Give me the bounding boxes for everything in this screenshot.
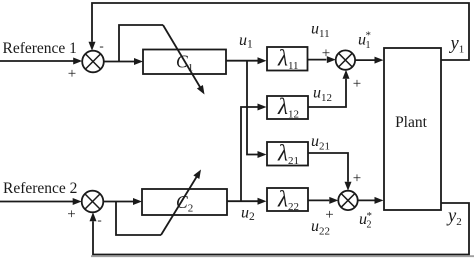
wire: C2 adaptation branch (down and over): [116, 202, 161, 236]
svg-text:Reference 1: Reference 1: [3, 40, 77, 57]
svg-text:+: +: [67, 207, 75, 223]
svg-text:Reference 2: Reference 2: [3, 180, 77, 197]
svg-text:C2: C2: [176, 192, 193, 215]
decoupler block L21: [267, 142, 308, 166]
svg-text:y2: y2: [446, 207, 462, 229]
wire: L11 output to summing junction S2: [308, 59, 327, 61]
wire: plant output y2 feedback to S3 (bottom path): [93, 203, 469, 255]
wire: plant output y1 feedback to S1 (top path): [92, 3, 469, 60]
adaptation diagonal arrow through C1: [163, 25, 200, 87]
svg-text:1: 1: [366, 40, 371, 51]
svg-text:y1: y1: [449, 34, 465, 56]
svg-text:+: +: [325, 207, 333, 223]
wire: L12 output up into S2: [308, 79, 346, 107]
wire: u1 branch down to L21: [247, 61, 258, 155]
wire: S4 output u2* to Plant: [358, 199, 375, 201]
wire: L21 output down into summing junction S4: [308, 153, 348, 182]
wire: C2 output u2 to block L22: [227, 200, 258, 202]
svg-text:-: -: [97, 212, 101, 227]
plant block: [384, 48, 441, 210]
wire: Reference 2 input into summing junction S3: [0, 201, 73, 203]
svg-text:λ21: λ21: [277, 141, 299, 168]
svg-text:+: +: [322, 46, 330, 62]
decoupler block L22: [267, 188, 308, 211]
wire: C1 adaptation branch (up and over): [119, 25, 163, 62]
adaptation diagonal arrow through C2: [161, 177, 197, 235]
svg-text:-: -: [99, 38, 103, 53]
summing junction S4: [338, 191, 357, 210]
summing junction S3 (ref2 comparator): [82, 191, 104, 213]
controller block C2: [142, 189, 227, 215]
svg-text:u21: u21: [311, 133, 330, 153]
svg-text:2: 2: [367, 220, 372, 231]
svg-text:u11: u11: [311, 21, 330, 41]
summing junction S1 (ref1 comparator): [82, 51, 104, 73]
svg-text:+: +: [68, 66, 76, 82]
svg-text:u12: u12: [313, 85, 332, 105]
controller block C1: [143, 50, 226, 75]
svg-text:λ11: λ11: [277, 46, 299, 73]
grey fringe under bottom feedback line: [91, 255, 474, 257]
svg-text:C1: C1: [176, 52, 193, 75]
wire: S2 output u1* to Plant: [355, 59, 374, 61]
svg-text:Plant: Plant: [395, 114, 428, 131]
wire: C1 output u1 to block L11: [226, 60, 258, 62]
wire: S3 output to controller C2: [103, 201, 133, 203]
decoupler block L11: [267, 47, 308, 71]
wire: S1 output to controller C1: [104, 61, 134, 63]
svg-text:λ22: λ22: [277, 187, 299, 214]
wire: L22 output to summing junction S4: [308, 199, 329, 201]
wire: u2 branch up to L12: [241, 107, 258, 201]
decoupler block L12: [267, 96, 308, 119]
svg-text:+: +: [353, 76, 361, 92]
svg-text:u1: u1: [239, 32, 253, 51]
svg-text:u2: u2: [241, 205, 255, 224]
svg-text:λ12: λ12: [277, 94, 299, 121]
wire: Reference 1 input into summing junction S1: [0, 60, 74, 62]
svg-text:+: +: [353, 171, 361, 187]
summing junction S2: [336, 50, 355, 69]
